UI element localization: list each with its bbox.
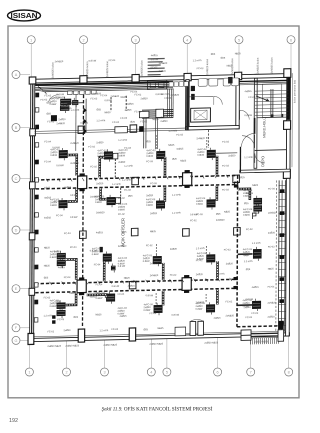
svg-text:0.8kW: 0.8kW bbox=[196, 308, 204, 311]
svg-text:FC-02: FC-02 bbox=[135, 93, 142, 96]
svg-text:Şekil 11.9. OFİS KATI FANCOİL: Şekil 11.9. OFİS KATI FANCOİL SİSTEMİ PR… bbox=[102, 406, 213, 413]
svg-text:NB25: NB25 bbox=[235, 52, 242, 55]
svg-text:Ø25: Ø25 bbox=[211, 53, 216, 56]
svg-text:0.8 kW: 0.8 kW bbox=[146, 294, 154, 297]
svg-text:0.8kW: 0.8kW bbox=[50, 256, 58, 259]
pipe drop pair A3 bbox=[155, 118, 157, 149]
svg-text:FC-04: FC-04 bbox=[44, 140, 51, 143]
svg-text:3: 3 bbox=[134, 38, 136, 42]
svg-text:2: 2 bbox=[65, 371, 67, 375]
interior column (236,180.5) bbox=[233, 175, 240, 183]
fan coil unit FC-B4 bbox=[207, 197, 216, 210]
svg-text:FC-03: FC-03 bbox=[146, 160, 153, 163]
axis bubble left A bbox=[12, 71, 30, 79]
svg-text:NB25: NB25 bbox=[104, 111, 111, 114]
corner column top-left bbox=[29, 77, 36, 84]
axis bubble top 5 bbox=[235, 36, 243, 77]
svg-text:FC-03: FC-03 bbox=[91, 97, 98, 100]
svg-text:C: C bbox=[15, 177, 18, 181]
svg-text:2xØ20 NB25: 2xØ20 NB25 bbox=[149, 343, 163, 346]
pipe branch B2 bbox=[101, 188, 107, 199]
svg-text:Ø25: Ø25 bbox=[128, 195, 133, 198]
wc fixtures pair 1 bbox=[198, 78, 218, 86]
svg-text:2xNB20: 2xNB20 bbox=[268, 301, 277, 304]
top exterior wall bbox=[31, 74, 291, 84]
junction box J2 bbox=[183, 170, 192, 188]
svg-text:NB25: NB25 bbox=[70, 292, 77, 295]
riser stub x156.5 y135 bbox=[156, 135, 158, 149]
triangle mark at column bbox=[234, 182, 237, 185]
svg-text:4xØ15: 4xØ15 bbox=[96, 231, 104, 234]
svg-text:FC-04: FC-04 bbox=[249, 96, 256, 99]
svg-text:FC-03: FC-03 bbox=[165, 97, 172, 100]
svg-text:2xNB25 kolon: 2xNB25 kolon bbox=[85, 61, 89, 78]
riser wall connection box bbox=[278, 330, 284, 342]
svg-text:A: A bbox=[15, 73, 18, 77]
riser drop x110 bbox=[110, 97, 112, 112]
svg-text:1.2 m³/h: 1.2 m³/h bbox=[161, 93, 170, 96]
bottom exterior wall bbox=[30, 331, 290, 342]
svg-text:FC-04: FC-04 bbox=[56, 214, 63, 217]
staircase corner marks bbox=[271, 114, 283, 118]
svg-text:0.8kW: 0.8kW bbox=[243, 305, 251, 308]
svg-text:FC-04: FC-04 bbox=[94, 263, 101, 266]
svg-text:0.8 kW: 0.8 kW bbox=[112, 285, 120, 288]
svg-text:Ø25: Ø25 bbox=[216, 213, 221, 216]
svg-text:0.8 kW: 0.8 kW bbox=[57, 93, 65, 96]
core west wall dark fill bbox=[186, 81, 189, 130]
V1 double segment top bbox=[85, 99, 87, 133]
interior column (186,233) bbox=[183, 229, 190, 237]
svg-text:0.8 kW: 0.8 kW bbox=[172, 314, 180, 317]
axis bubble bottom 1 bbox=[25, 341, 33, 377]
svg-text:4xØ15: 4xØ15 bbox=[64, 107, 72, 110]
svg-text:2xØ20 NB25: 2xØ20 NB25 bbox=[103, 344, 117, 347]
svg-text:FC-03: FC-03 bbox=[176, 133, 183, 136]
svg-text:1: 1 bbox=[28, 371, 30, 375]
svg-text:2xØ20 NB25: 2xØ20 NB25 bbox=[254, 340, 268, 343]
core west wall bbox=[186, 80, 190, 130]
riser stub x206.5 y295 bbox=[205, 294, 207, 303]
valve marks V2 bbox=[233, 184, 238, 289]
door arc stair hall bbox=[242, 135, 255, 148]
axis bubble bottom 8 bbox=[285, 335, 293, 376]
svg-text:2xNB25 kolon: 2xNB25 kolon bbox=[270, 57, 274, 74]
svg-text:F: F bbox=[15, 326, 18, 330]
door arc top wall bbox=[49, 95, 59, 102]
svg-text:NB25: NB25 bbox=[121, 96, 128, 99]
svg-text:1.2 m³/h: 1.2 m³/h bbox=[244, 260, 253, 263]
svg-text:5: 5 bbox=[238, 38, 240, 42]
svg-text:FC-04: FC-04 bbox=[268, 285, 275, 288]
svg-text:FC-02: FC-02 bbox=[47, 120, 54, 123]
staircase treads bbox=[255, 90, 289, 115]
svg-text:FC-03: FC-03 bbox=[197, 67, 204, 70]
svg-text:1: 1 bbox=[30, 38, 32, 42]
fan coil unit FC-D1b bbox=[57, 308, 66, 319]
fan coil unit FC-C5 bbox=[253, 247, 262, 261]
fan coil unit FC-D5 bbox=[252, 299, 261, 312]
pipe main V2 elbow bbox=[237, 325, 279, 328]
svg-text:2xØ20 NB25: 2xØ20 NB25 bbox=[204, 341, 218, 344]
svg-text:NB25: NB25 bbox=[150, 230, 157, 233]
axis bubble left F bbox=[12, 324, 30, 332]
fan coil unit FC-C1a bbox=[57, 251, 66, 262]
svg-text:4xØ15: 4xØ15 bbox=[252, 286, 260, 289]
axis bubble top 2 bbox=[80, 36, 88, 80]
svg-text:FC-03: FC-03 bbox=[58, 318, 65, 321]
column on bottom wall x82 bbox=[78, 329, 84, 342]
fan coil unit FC-B5 bbox=[253, 196, 262, 207]
axis bubble bottom 3 bbox=[101, 339, 109, 376]
svg-text:0.8 kW: 0.8 kW bbox=[56, 164, 64, 167]
svg-text:4: 4 bbox=[150, 371, 152, 375]
svg-text:2xNB20: 2xNB20 bbox=[96, 211, 105, 214]
annotation texts top band bbox=[40, 91, 171, 116]
connection box B2 bbox=[116, 198, 121, 204]
staircase up arrow bbox=[256, 96, 269, 102]
riser shaft valves bbox=[279, 189, 284, 325]
svg-text:1.2 m³/h: 1.2 m³/h bbox=[124, 165, 133, 168]
pipe branch D4 bbox=[216, 290, 219, 305]
fan coil unit FC-B3 bbox=[156, 198, 165, 211]
svg-text:Ø25: Ø25 bbox=[74, 316, 79, 319]
svg-text:FC-02: FC-02 bbox=[226, 300, 233, 303]
svg-text:4: 4 bbox=[186, 38, 188, 42]
svg-text:2xØ20 NB25: 2xØ20 NB25 bbox=[47, 345, 61, 348]
dashed drop B2 bbox=[120, 188, 122, 198]
svg-text:1.2 m³/h: 1.2 m³/h bbox=[216, 273, 225, 276]
svg-text:1.2 m³/h: 1.2 m³/h bbox=[172, 212, 181, 215]
svg-text:FC-04: FC-04 bbox=[112, 121, 119, 124]
core south wall bbox=[186, 125, 240, 130]
riser stub x206.5 y138 bbox=[206, 137, 208, 148]
svg-text:2xØ20: 2xØ20 bbox=[226, 262, 234, 265]
pipe branch B3 bbox=[164, 187, 167, 202]
svg-text:1.2 m³/h: 1.2 m³/h bbox=[96, 119, 105, 122]
svg-text:2xNB20: 2xNB20 bbox=[171, 94, 180, 97]
svg-text:0.8kW: 0.8kW bbox=[196, 203, 204, 206]
svg-text:FC-04: FC-04 bbox=[245, 316, 252, 319]
svg-text:0.8kW: 0.8kW bbox=[50, 154, 58, 157]
svg-text:1.2 m³/h: 1.2 m³/h bbox=[70, 109, 79, 112]
svg-text:192: 192 bbox=[9, 418, 18, 424]
svg-text:0.8kW: 0.8kW bbox=[146, 204, 154, 207]
svg-text:FC-04: FC-04 bbox=[150, 312, 157, 315]
svg-text:B: B bbox=[15, 126, 18, 130]
axis bubble left C bbox=[12, 175, 30, 183]
svg-text:FC-03: FC-03 bbox=[111, 328, 118, 331]
V1 flow arrows bbox=[83, 108, 87, 134]
svg-text:2xNB20: 2xNB20 bbox=[111, 95, 120, 98]
kitchen counter bbox=[147, 80, 166, 89]
svg-text:0.8kW: 0.8kW bbox=[143, 260, 151, 263]
svg-text:4xØ15: 4xØ15 bbox=[176, 147, 184, 150]
svg-text:G: G bbox=[15, 339, 18, 343]
svg-text:DEPO: DEPO bbox=[261, 156, 265, 167]
svg-text:0.8kW: 0.8kW bbox=[95, 201, 103, 204]
door arc depo bbox=[255, 153, 265, 163]
svg-text:2xØ20: 2xØ20 bbox=[196, 273, 204, 276]
pipe main V1 bbox=[82, 95, 83, 327]
svg-text:2xNB20: 2xNB20 bbox=[226, 314, 235, 317]
svg-text:0.8kW: 0.8kW bbox=[146, 155, 154, 158]
svg-text:4xØ15: 4xØ15 bbox=[126, 103, 134, 106]
pipe stub A4-east bbox=[216, 152, 237, 154]
svg-text:0.8kW: 0.8kW bbox=[197, 154, 205, 157]
svg-text:FC-02: FC-02 bbox=[151, 66, 158, 69]
svg-text:0.8kW: 0.8kW bbox=[97, 155, 105, 158]
svg-text:FC-03: FC-03 bbox=[150, 182, 157, 185]
pipe branch C3 bbox=[162, 263, 165, 280]
svg-text:FC-04: FC-04 bbox=[101, 94, 108, 97]
svg-text:Ø25: Ø25 bbox=[143, 328, 148, 331]
dark box near column bbox=[139, 126, 143, 132]
svg-text:FC-03: FC-03 bbox=[124, 189, 131, 192]
svg-text:2xNB20: 2xNB20 bbox=[216, 219, 225, 222]
white frame on rail bbox=[115, 127, 128, 133]
svg-text:FC-04: FC-04 bbox=[64, 232, 71, 235]
svg-text:0.8 kW: 0.8 kW bbox=[70, 194, 78, 197]
pipe main H1 supply bbox=[36, 175, 238, 179]
svg-text:Ø25: Ø25 bbox=[240, 176, 245, 179]
svg-text:0.8kW: 0.8kW bbox=[243, 195, 251, 198]
pipe elbow bundle bbox=[142, 110, 173, 119]
fan coil label stacks bbox=[49, 93, 254, 317]
fan coil unit FC-T2 bbox=[72, 98, 78, 108]
svg-text:2xØ20: 2xØ20 bbox=[96, 182, 104, 185]
corridor west wall bbox=[254, 118, 256, 134]
fan coil unit FC-T1b bbox=[60, 103, 69, 113]
svg-text:NB25: NB25 bbox=[124, 277, 131, 280]
svg-text:2xNB20: 2xNB20 bbox=[159, 62, 168, 65]
svg-text:FC-02: FC-02 bbox=[118, 197, 125, 200]
right exterior wall bbox=[286, 70, 293, 337]
depo top wall bbox=[255, 149, 287, 152]
svg-text:2xØ20: 2xØ20 bbox=[63, 329, 71, 332]
svg-text:1.2 m³/h: 1.2 m³/h bbox=[112, 183, 121, 186]
column on right wall y123.5 bbox=[284, 121, 291, 130]
svg-text:0.8kW: 0.8kW bbox=[197, 258, 205, 261]
svg-text:2: 2 bbox=[83, 38, 85, 42]
svg-text:1.2 m³/h: 1.2 m³/h bbox=[44, 314, 53, 317]
black box left wall area bbox=[51, 115, 57, 121]
svg-text:NB25: NB25 bbox=[96, 313, 103, 316]
svg-text:Ø25: Ø25 bbox=[96, 108, 101, 111]
pipe branch A2 bbox=[100, 157, 105, 177]
pipes top band right bbox=[239, 80, 286, 84]
svg-text:2xNB20: 2xNB20 bbox=[150, 262, 159, 265]
svg-text:Ø25: Ø25 bbox=[146, 140, 151, 143]
svg-text:0.8 kW: 0.8 kW bbox=[70, 216, 78, 219]
svg-text:0.8kW: 0.8kW bbox=[118, 312, 126, 315]
pipe stub D5 bbox=[237, 304, 252, 306]
svg-text:FC-02: FC-02 bbox=[47, 330, 54, 333]
interior column (81,128) bbox=[78, 126, 85, 134]
pipe branch C4 bbox=[216, 261, 219, 279]
svg-text:NB25: NB25 bbox=[227, 64, 234, 67]
svg-text:2xØ20: 2xØ20 bbox=[118, 161, 126, 164]
interior column (135,180.5) bbox=[132, 177, 139, 185]
svg-text:NB25: NB25 bbox=[180, 159, 187, 162]
svg-text:E: E bbox=[15, 287, 18, 291]
svg-text:4xØ15: 4xØ15 bbox=[245, 90, 253, 93]
svg-text:0.8 kW: 0.8 kW bbox=[105, 99, 113, 102]
svg-text:1.2 m³/h: 1.2 m³/h bbox=[118, 139, 127, 142]
svg-text:2xNB20: 2xNB20 bbox=[55, 60, 64, 63]
elbow bundle white box bbox=[156, 109, 164, 117]
door west segment bbox=[175, 327, 186, 336]
svg-text:2xNB20: 2xNB20 bbox=[56, 122, 65, 125]
label frame box bbox=[139, 111, 149, 118]
pipe main H2 supply bbox=[35, 279, 237, 283]
double door bottom bbox=[190, 319, 203, 335]
corridor wall segment bbox=[239, 147, 241, 173]
svg-text:0.8kW: 0.8kW bbox=[96, 297, 104, 300]
svg-text:FC-02: FC-02 bbox=[252, 312, 259, 315]
pipe branch C2 bbox=[103, 261, 106, 281]
svg-text:0.8kW: 0.8kW bbox=[243, 254, 251, 257]
axis bubble left B bbox=[12, 124, 30, 132]
interior column (133,284.5) bbox=[129, 281, 136, 289]
svg-text:0.8 kW: 0.8 kW bbox=[244, 114, 252, 117]
interior column (134.8,231.5) bbox=[131, 228, 138, 236]
axis bubble left E bbox=[12, 285, 30, 293]
svg-text:Ø25: Ø25 bbox=[246, 268, 251, 271]
unit near door bbox=[241, 330, 251, 341]
svg-text:0.8kW: 0.8kW bbox=[49, 103, 57, 106]
svg-text:0.8 kW: 0.8 kW bbox=[252, 212, 260, 215]
label block above kitchen bbox=[148, 58, 165, 76]
axis bubble left D bbox=[12, 226, 30, 234]
svg-text:2xØ20: 2xØ20 bbox=[228, 154, 236, 157]
pipe stub T1 bbox=[67, 102, 83, 104]
svg-text:FC-02: FC-02 bbox=[146, 244, 153, 247]
unit row mid top bbox=[169, 82, 188, 87]
pipe branch D1 bbox=[66, 292, 76, 305]
junction box J1 bbox=[77, 173, 86, 191]
svg-text:2xNB25 kolon: 2xNB25 kolon bbox=[205, 58, 209, 75]
svg-text:FC-03: FC-03 bbox=[64, 276, 71, 279]
junction box J4 bbox=[182, 275, 191, 293]
core east wall bbox=[236, 78, 240, 128]
svg-text:0.8 kW: 0.8 kW bbox=[151, 58, 159, 61]
svg-text:FC-04: FC-04 bbox=[70, 246, 77, 249]
column on right wall y71.5 bbox=[284, 69, 291, 78]
svg-text:kolon şemasına bak: kolon şemasına bak bbox=[292, 79, 296, 103]
svg-text:FC-03: FC-03 bbox=[222, 188, 229, 191]
fan coil unit FC-B2 bbox=[107, 195, 116, 208]
fan coil unit FC-C3 bbox=[153, 254, 162, 267]
svg-text:D: D bbox=[15, 228, 18, 232]
svg-text:FC-02: FC-02 bbox=[140, 120, 147, 123]
svg-text:2xNB20: 2xNB20 bbox=[150, 274, 159, 277]
svg-text:2xØ20: 2xØ20 bbox=[170, 248, 178, 251]
fan coil unit FC-A1 bbox=[59, 148, 68, 161]
svg-text:FC-04: FC-04 bbox=[118, 293, 125, 296]
fan coil unit FC-A2 bbox=[104, 149, 113, 162]
staircase divider bbox=[271, 89, 273, 117]
pipe branch D2 bbox=[87, 295, 107, 299]
fan coil unit FC-D1a bbox=[57, 300, 66, 311]
svg-text:0.8kW: 0.8kW bbox=[118, 154, 126, 157]
pipe main V2 bbox=[236, 175, 239, 326]
dark blobs at core wall bbox=[191, 86, 195, 100]
fan coil unit FC-D3 bbox=[154, 303, 163, 316]
svg-text:FC-02: FC-02 bbox=[190, 219, 197, 222]
svg-text:1.2 m³/h: 1.2 m³/h bbox=[168, 130, 177, 133]
fan coil unit FC-A4 bbox=[207, 148, 216, 161]
pipe stub C5 bbox=[238, 253, 253, 255]
corridor door arc bbox=[241, 133, 254, 146]
border frame bbox=[8, 26, 299, 398]
axis bubble bottom 6 bbox=[214, 336, 222, 376]
svg-text:0.8kW: 0.8kW bbox=[243, 214, 251, 217]
svg-text:1.2 m³/h: 1.2 m³/h bbox=[99, 329, 108, 332]
svg-text:2xNB25 kolon: 2xNB25 kolon bbox=[105, 60, 109, 77]
pipe branch A3 bbox=[164, 157, 167, 177]
riser shaft dashed line bbox=[275, 180, 278, 331]
fan coil unit FC-C2 bbox=[103, 251, 112, 264]
svg-text:0.8 kW: 0.8 kW bbox=[80, 122, 88, 125]
svg-text:Ø25: Ø25 bbox=[130, 121, 135, 124]
entrance mat hatch bbox=[250, 337, 278, 344]
dark duct at wc bbox=[228, 77, 233, 84]
svg-text:6: 6 bbox=[217, 371, 219, 375]
svg-text:2xØ20: 2xØ20 bbox=[267, 315, 275, 318]
interior rail pipes bbox=[35, 128, 186, 133]
stairwell inner outline bbox=[262, 84, 281, 118]
wall pipe pair to riser bbox=[251, 333, 278, 336]
svg-text:Ø25: Ø25 bbox=[46, 112, 51, 115]
svg-text:1.2 m³/h: 1.2 m³/h bbox=[244, 156, 253, 159]
axis bubble bottom 4 bbox=[147, 338, 155, 376]
depo bottom wall bbox=[240, 169, 290, 173]
pipe tick marks bbox=[46, 175, 232, 285]
svg-text:0.8 kW: 0.8 kW bbox=[89, 59, 97, 62]
ISISAN logo bbox=[8, 10, 41, 21]
svg-text:0.8kW: 0.8kW bbox=[50, 305, 58, 308]
svg-text:2xØ20: 2xØ20 bbox=[96, 141, 104, 144]
svg-text:FC-02: FC-02 bbox=[246, 228, 253, 231]
svg-text:2xØ20: 2xØ20 bbox=[160, 120, 168, 123]
axis bubble bottom 2 bbox=[63, 340, 71, 376]
fan coil unit FC-C4 bbox=[206, 252, 215, 265]
svg-text:2xØ20: 2xØ20 bbox=[150, 212, 158, 215]
axis bubble top 3 bbox=[132, 36, 140, 79]
svg-text:FC-04: FC-04 bbox=[268, 187, 275, 190]
svg-text:2xNB25 kolon: 2xNB25 kolon bbox=[140, 60, 144, 77]
riser stub x156.5 y293 bbox=[155, 293, 157, 304]
svg-text:FC-02: FC-02 bbox=[170, 274, 177, 277]
riser bottom connection bbox=[278, 321, 283, 330]
svg-text:FC-03: FC-03 bbox=[224, 248, 231, 251]
dashed drop A2 bbox=[114, 159, 116, 177]
wc door arc bbox=[214, 96, 223, 105]
pipe drop bundle bbox=[168, 89, 174, 118]
svg-text:2xNB25 kolon: 2xNB25 kolon bbox=[51, 62, 55, 79]
svg-text:2xNB20: 2xNB20 bbox=[268, 211, 277, 214]
svg-text:0.8kW: 0.8kW bbox=[50, 204, 58, 207]
stair west wall bbox=[254, 78, 257, 168]
pipe main H1 return bbox=[36, 184, 238, 188]
svg-text:FC-03: FC-03 bbox=[222, 164, 229, 167]
svg-text:2xNB20: 2xNB20 bbox=[196, 137, 205, 140]
staircase landing line bbox=[257, 116, 287, 119]
riser drop x126 bbox=[125, 96, 127, 111]
svg-text:1.2 m³/h: 1.2 m³/h bbox=[196, 247, 205, 250]
svg-text:NB25: NB25 bbox=[168, 144, 175, 147]
